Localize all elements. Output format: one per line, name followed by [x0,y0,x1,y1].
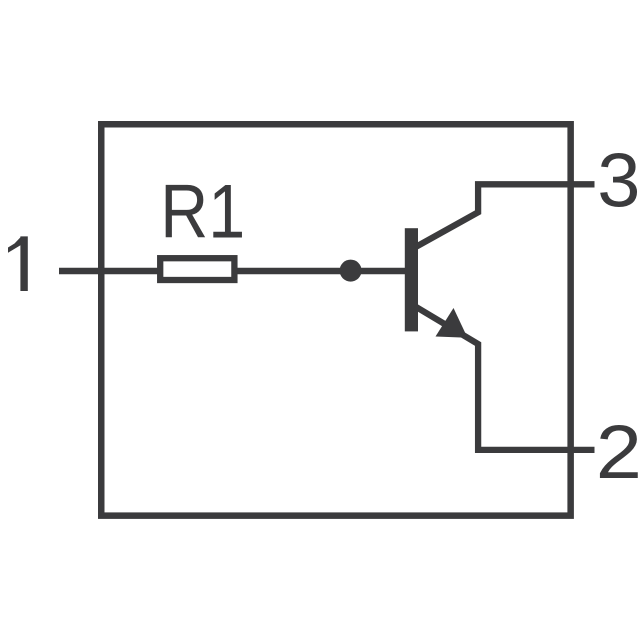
svg-text:R1: R1 [160,170,245,255]
svg-text:2: 2 [596,410,640,495]
svg-text:3: 3 [597,138,640,223]
